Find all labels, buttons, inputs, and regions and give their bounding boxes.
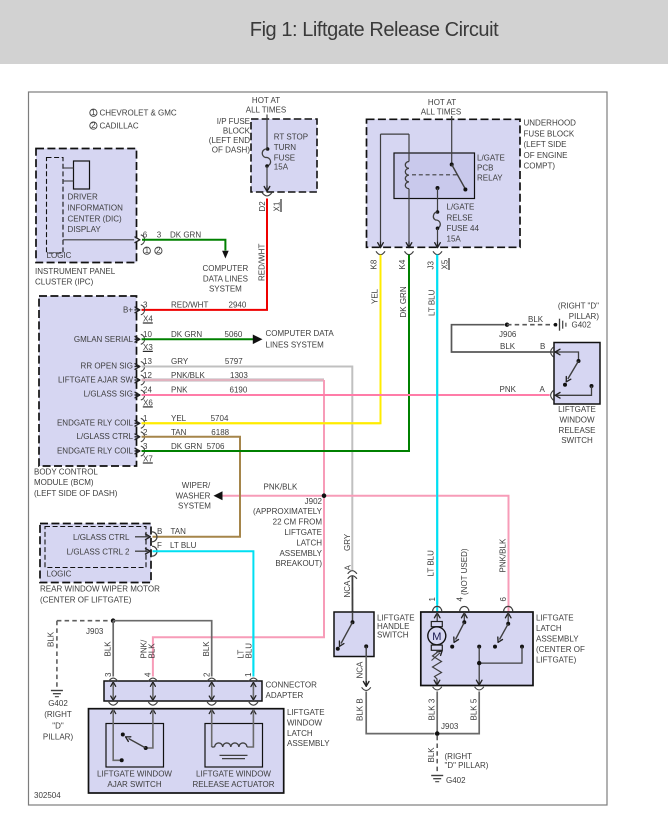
svg-text:302504: 302504 (34, 791, 61, 800)
svg-text:ALL TIMES: ALL TIMES (246, 106, 286, 115)
svg-text:1: 1 (91, 108, 96, 117)
svg-text:ASSEMBLY: ASSEMBLY (279, 549, 322, 558)
svg-text:DISPLAY: DISPLAY (68, 225, 102, 234)
svg-text:BLK 5: BLK 5 (470, 698, 479, 720)
svg-text:1: 1 (143, 414, 148, 423)
svg-text:LT BLU: LT BLU (427, 550, 436, 577)
svg-text:LIFTGATE AJAR SW: LIFTGATE AJAR SW (58, 375, 133, 384)
svg-text:INFORMATION: INFORMATION (68, 203, 124, 212)
svg-text:G402: G402 (572, 320, 592, 329)
svg-text:X7: X7 (143, 455, 153, 464)
svg-text:B: B (157, 527, 162, 536)
svg-text:D2: D2 (258, 201, 267, 212)
svg-text:1: 1 (244, 672, 253, 677)
svg-text:TAN: TAN (171, 428, 187, 437)
svg-text:BLU: BLU (245, 643, 254, 659)
svg-text:INSTRUMENT PANEL: INSTRUMENT PANEL (35, 267, 116, 276)
svg-text:J3: J3 (427, 261, 436, 270)
svg-text:6: 6 (143, 230, 148, 239)
svg-text:BLK B: BLK B (356, 698, 365, 721)
svg-text:(APPROXIMATELY: (APPROXIMATELY (253, 507, 323, 516)
svg-text:BLK: BLK (147, 643, 156, 659)
svg-text:3: 3 (104, 672, 113, 677)
svg-text:RELEASE ACTUATOR: RELEASE ACTUATOR (193, 780, 275, 789)
svg-text:FUSE: FUSE (274, 154, 295, 163)
svg-text:DK GRN: DK GRN (171, 442, 202, 451)
svg-text:CADILLAC: CADILLAC (100, 121, 139, 130)
svg-text:BREAKOUT): BREAKOUT) (275, 559, 322, 568)
svg-text:SYSTEM: SYSTEM (209, 285, 242, 294)
svg-text:REAR WINDOW WIPER MOTOR: REAR WINDOW WIPER MOTOR (40, 584, 160, 593)
svg-text:1: 1 (145, 246, 150, 255)
svg-text:15A: 15A (274, 163, 289, 172)
svg-text:BLK: BLK (500, 342, 516, 351)
svg-text:YEL: YEL (171, 414, 187, 423)
svg-text:LIFTGATE WINDOW: LIFTGATE WINDOW (97, 770, 172, 779)
svg-text:4: 4 (144, 672, 153, 677)
svg-text:PILLAR): PILLAR) (43, 733, 74, 742)
svg-text:BLK: BLK (427, 747, 436, 763)
svg-text:5060: 5060 (225, 330, 243, 339)
svg-text:X1: X1 (273, 201, 282, 211)
svg-text:BODY CONTROL: BODY CONTROL (34, 468, 98, 477)
svg-text:ASSEMBLY: ASSEMBLY (536, 635, 579, 644)
svg-text:LT BLU: LT BLU (428, 289, 437, 316)
svg-text:COMPT): COMPT) (524, 161, 556, 170)
svg-text:(LEFT SIDE: (LEFT SIDE (524, 140, 567, 149)
svg-text:M: M (432, 631, 441, 643)
svg-text:6: 6 (499, 597, 508, 602)
svg-text:COMPUTER: COMPUTER (203, 264, 249, 273)
svg-text:2: 2 (202, 672, 211, 677)
svg-text:3: 3 (157, 230, 162, 239)
svg-text:FUSE BLOCK: FUSE BLOCK (524, 129, 575, 138)
svg-text:CONNECTOR: CONNECTOR (266, 680, 318, 689)
svg-text:OF DASH): OF DASH) (212, 146, 251, 155)
svg-text:LIFTGATE: LIFTGATE (284, 528, 322, 537)
svg-text:COMPUTER DATA: COMPUTER DATA (266, 329, 335, 338)
svg-text:A: A (540, 385, 546, 394)
svg-text:ALL TIMES: ALL TIMES (421, 108, 461, 117)
svg-text:F: F (157, 541, 162, 550)
svg-text:SWITCH: SWITCH (561, 436, 593, 445)
svg-text:DK GRN: DK GRN (171, 330, 202, 339)
svg-text:LIFTGATE: LIFTGATE (558, 405, 596, 414)
svg-text:LOGIC: LOGIC (47, 251, 72, 260)
svg-text:PNK: PNK (500, 385, 517, 394)
svg-text:(LEFT END: (LEFT END (209, 136, 250, 145)
svg-text:PNK/BLK: PNK/BLK (499, 538, 508, 572)
svg-text:L/GATE: L/GATE (447, 203, 475, 212)
svg-text:NCA: NCA (343, 580, 352, 598)
svg-text:B+: B+ (123, 305, 133, 314)
svg-text:ASSEMBLY: ASSEMBLY (287, 739, 330, 748)
svg-text:RT STOP: RT STOP (274, 133, 308, 142)
svg-text:UNDERHOOD: UNDERHOOD (524, 119, 577, 128)
svg-text:J902: J902 (305, 497, 323, 506)
svg-text:L/GLASS CTRL: L/GLASS CTRL (73, 533, 130, 542)
svg-text:G402: G402 (48, 699, 68, 708)
svg-text:LINES SYSTEM: LINES SYSTEM (266, 341, 325, 350)
svg-text:ENDGATE RLY COIL: ENDGATE RLY COIL (57, 419, 134, 428)
svg-text:LIFTGATE: LIFTGATE (287, 708, 325, 717)
svg-text:LATCH: LATCH (296, 538, 322, 547)
svg-text:I/P FUSE: I/P FUSE (217, 117, 250, 126)
svg-text:X6: X6 (143, 398, 153, 407)
svg-text:WASHER: WASHER (176, 491, 211, 500)
svg-text:(CENTER OF: (CENTER OF (536, 645, 585, 654)
svg-text:DK GRN: DK GRN (399, 286, 408, 317)
svg-text:RELSE: RELSE (447, 213, 473, 222)
svg-text:WINDOW: WINDOW (287, 718, 323, 727)
svg-text:LIFTGATE: LIFTGATE (536, 613, 574, 622)
svg-text:G402: G402 (446, 776, 466, 785)
svg-text:DATA LINES: DATA LINES (203, 274, 248, 283)
svg-text:5706: 5706 (207, 442, 225, 451)
svg-text:3: 3 (143, 301, 148, 310)
svg-text:RR OPEN SIG: RR OPEN SIG (81, 362, 133, 371)
svg-text:YEL: YEL (371, 288, 380, 304)
svg-text:ENDGATE RLY COIL: ENDGATE RLY COIL (57, 446, 134, 455)
svg-text:GMLAN SERIAL: GMLAN SERIAL (74, 335, 134, 344)
svg-text:PNK: PNK (171, 385, 188, 394)
svg-text:LATCH: LATCH (287, 729, 313, 738)
svg-text:K8: K8 (370, 259, 379, 269)
svg-text:2: 2 (156, 246, 161, 255)
svg-text:3: 3 (143, 442, 148, 451)
svg-text:PCB: PCB (477, 164, 493, 173)
svg-text:X3: X3 (143, 343, 153, 352)
svg-text:(CENTER OF LIFTGATE): (CENTER OF LIFTGATE) (40, 596, 132, 605)
svg-text:B: B (540, 342, 545, 351)
svg-text:10: 10 (143, 330, 152, 339)
svg-text:4: 4 (455, 597, 464, 602)
svg-text:CENTER (DIC): CENTER (DIC) (68, 214, 123, 223)
svg-text:FUSE 44: FUSE 44 (447, 224, 480, 233)
svg-text:SYSTEM: SYSTEM (178, 502, 211, 511)
svg-text:24: 24 (143, 385, 152, 394)
svg-text:BLK: BLK (104, 641, 113, 657)
svg-text:PNK/BLK: PNK/BLK (264, 483, 298, 492)
svg-text:(NOT USED): (NOT USED) (460, 548, 469, 595)
svg-text:DRIVER: DRIVER (68, 193, 98, 202)
svg-text:RELEASE: RELEASE (559, 426, 596, 435)
svg-text:22 CM FROM: 22 CM FROM (273, 518, 323, 527)
svg-text:LT BLU: LT BLU (170, 541, 197, 550)
svg-text:"D" PILLAR): "D" PILLAR) (445, 761, 489, 770)
svg-text:X4: X4 (143, 315, 153, 324)
svg-text:LOGIC: LOGIC (47, 570, 72, 579)
svg-text:K4: K4 (398, 259, 407, 269)
svg-text:DK GRN: DK GRN (170, 230, 201, 239)
svg-text:1: 1 (428, 597, 437, 602)
svg-text:L/GATE: L/GATE (477, 154, 505, 163)
svg-text:LATCH: LATCH (536, 624, 562, 633)
svg-text:TURN: TURN (274, 143, 296, 152)
svg-text:RED/WHT: RED/WHT (171, 301, 208, 310)
svg-text:LIFTGATE): LIFTGATE) (536, 656, 577, 665)
svg-text:2940: 2940 (229, 301, 247, 310)
svg-text:15A: 15A (447, 234, 462, 243)
svg-text:SWITCH: SWITCH (377, 631, 409, 640)
svg-text:L/GLASS SIG: L/GLASS SIG (84, 389, 133, 398)
svg-text:(RIGHT "D": (RIGHT "D" (558, 301, 599, 310)
svg-text:X5: X5 (441, 259, 450, 269)
svg-text:CHEVROLET & GMC: CHEVROLET & GMC (100, 109, 177, 118)
svg-text:MODULE (BCM): MODULE (BCM) (34, 478, 94, 487)
svg-text:J906: J906 (499, 330, 517, 339)
svg-text:NCA: NCA (355, 661, 364, 679)
svg-text:J903: J903 (86, 627, 104, 636)
svg-text:PILLAR): PILLAR) (569, 312, 600, 321)
svg-text:(RIGHT: (RIGHT (445, 752, 473, 761)
svg-text:6190: 6190 (230, 385, 248, 394)
svg-text:HOT AT: HOT AT (428, 98, 456, 107)
svg-text:AJAR SWITCH: AJAR SWITCH (107, 780, 161, 789)
svg-text:HOT AT: HOT AT (252, 96, 280, 105)
svg-text:LIFTGATE WINDOW: LIFTGATE WINDOW (196, 770, 271, 779)
svg-text:"D": "D" (52, 721, 64, 730)
svg-text:WINDOW: WINDOW (559, 415, 595, 424)
svg-text:BLK: BLK (528, 315, 544, 324)
svg-text:L/GLASS CTRL: L/GLASS CTRL (77, 432, 134, 441)
svg-text:TAN: TAN (171, 527, 187, 536)
svg-text:ADAPTER: ADAPTER (266, 691, 304, 700)
svg-text:13: 13 (143, 357, 152, 366)
svg-text:BLK: BLK (47, 631, 56, 647)
svg-text:(RIGHT: (RIGHT (44, 710, 72, 719)
svg-text:2: 2 (91, 121, 96, 130)
svg-text:A: A (344, 565, 353, 571)
svg-text:GRY: GRY (171, 357, 189, 366)
svg-text:GRY: GRY (343, 533, 352, 551)
svg-text:RED/WHT: RED/WHT (258, 244, 267, 281)
svg-text:L/GLASS CTRL 2: L/GLASS CTRL 2 (67, 547, 130, 556)
svg-text:OF ENGINE: OF ENGINE (524, 151, 568, 160)
svg-text:BLK 3: BLK 3 (428, 698, 437, 720)
svg-text:J903: J903 (441, 722, 459, 731)
svg-text:(LEFT SIDE OF DASH): (LEFT SIDE OF DASH) (34, 489, 118, 498)
svg-text:5797: 5797 (225, 357, 243, 366)
svg-text:6188: 6188 (211, 428, 229, 437)
svg-text:RELAY: RELAY (477, 174, 503, 183)
svg-text:CLUSTER (IPC): CLUSTER (IPC) (35, 278, 94, 287)
svg-text:2: 2 (143, 428, 148, 437)
svg-text:5704: 5704 (211, 414, 229, 423)
svg-text:BLK: BLK (202, 641, 211, 657)
svg-text:BLOCK: BLOCK (223, 127, 251, 136)
svg-text:WIPER/: WIPER/ (182, 481, 211, 490)
